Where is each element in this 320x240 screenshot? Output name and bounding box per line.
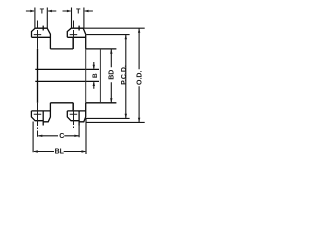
svg-text:BD: BD bbox=[108, 70, 115, 80]
svg-text:T: T bbox=[76, 8, 81, 15]
svg-text:T: T bbox=[40, 8, 45, 15]
svg-text:P.C.D.: P.C.D. bbox=[121, 65, 128, 85]
svg-text:B: B bbox=[92, 73, 99, 78]
svg-text:BL: BL bbox=[55, 149, 65, 156]
svg-text:O.D.: O.D. bbox=[136, 71, 143, 85]
svg-text:C: C bbox=[59, 131, 64, 140]
